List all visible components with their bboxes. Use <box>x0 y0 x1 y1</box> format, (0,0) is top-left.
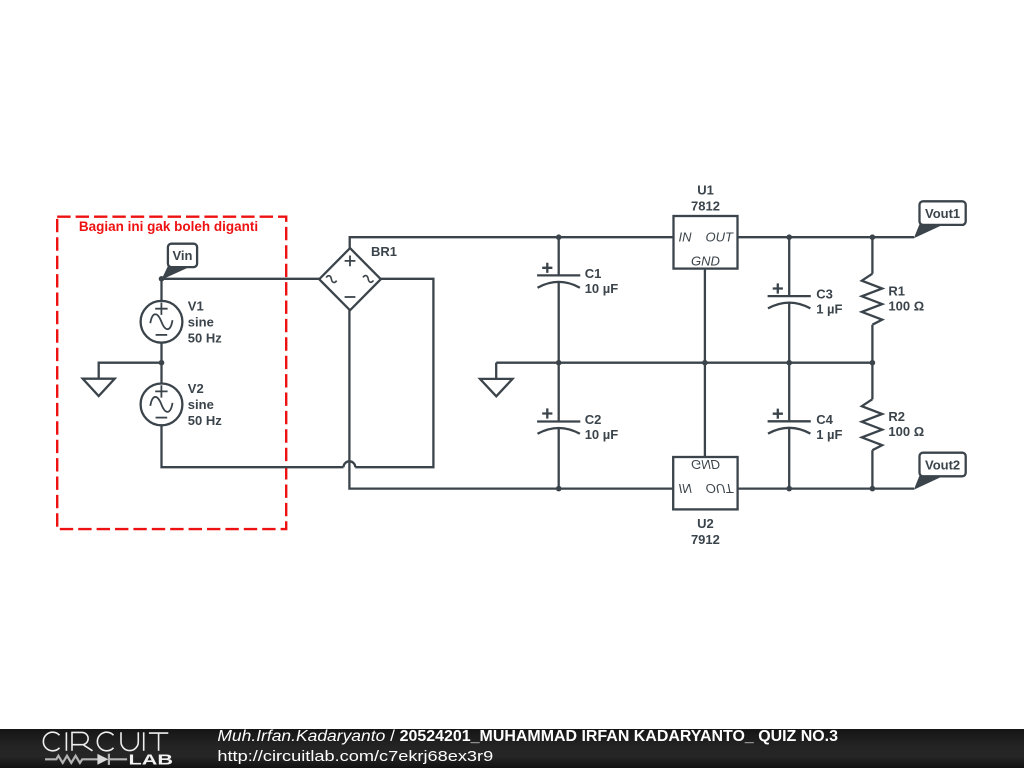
svg-text:BR1: BR1 <box>371 244 397 259</box>
svg-text:OUT: OUT <box>706 481 735 496</box>
svg-text:IN: IN <box>679 230 693 245</box>
svg-text:1 µF: 1 µF <box>816 427 842 442</box>
svg-text:7812: 7812 <box>691 199 720 214</box>
svg-text:Bagian ini gak boleh diganti: Bagian ini gak boleh diganti <box>79 219 258 234</box>
svg-text:Vout2: Vout2 <box>925 457 960 472</box>
svg-text:GND: GND <box>691 254 720 269</box>
svg-text:V1: V1 <box>188 299 204 314</box>
svg-text:100 Ω: 100 Ω <box>888 424 924 439</box>
svg-text:sine: sine <box>188 397 214 412</box>
svg-text:C2: C2 <box>585 412 602 427</box>
svg-text:1 µF: 1 µF <box>816 302 842 317</box>
svg-text:50 Hz: 50 Hz <box>188 413 222 428</box>
svg-text:7912: 7912 <box>691 532 720 547</box>
svg-text:C1: C1 <box>585 266 602 281</box>
svg-text:C4: C4 <box>816 412 833 427</box>
svg-text:Vin: Vin <box>173 248 193 263</box>
svg-text:Muh.Irfan.Kadaryanto / 2052420: Muh.Irfan.Kadaryanto / 20524201_MUHAMMAD… <box>217 728 838 745</box>
svg-text:100 Ω: 100 Ω <box>888 299 924 314</box>
svg-text:GND: GND <box>691 457 720 472</box>
svg-text:10 µF: 10 µF <box>585 281 619 296</box>
svg-text:U2: U2 <box>697 516 714 531</box>
svg-text:V2: V2 <box>188 381 204 396</box>
svg-text:sine: sine <box>188 315 214 330</box>
svg-text:OUT: OUT <box>706 230 735 245</box>
svg-text:IN: IN <box>679 481 693 496</box>
svg-text:50 Hz: 50 Hz <box>188 331 222 346</box>
svg-text:10 µF: 10 µF <box>585 427 619 442</box>
svg-text:C3: C3 <box>816 287 833 302</box>
svg-text:R1: R1 <box>888 284 905 299</box>
svg-text:R2: R2 <box>888 409 905 424</box>
svg-text:Vout1: Vout1 <box>925 206 960 221</box>
svg-text:U1: U1 <box>697 183 714 198</box>
svg-text:http://circuitlab.com/c7ekrj68: http://circuitlab.com/c7ekrj68ex3r9 <box>217 748 493 765</box>
svg-text:LAB: LAB <box>129 752 174 768</box>
